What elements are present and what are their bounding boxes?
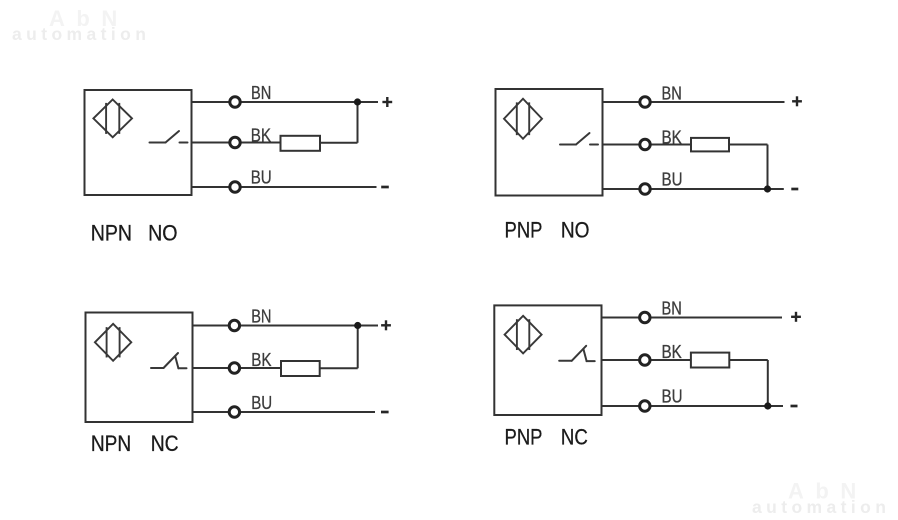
wire BN to + rail (PNP NC): [602, 317, 783, 319]
terminal circle BU (NPN NC): [229, 407, 239, 417]
wire BU to - rail (NPN NC): [193, 411, 376, 413]
sensor body box (PNP NC sensor): [494, 305, 601, 415]
svg-text:BN: BN: [251, 305, 271, 326]
terminal circle BK (PNP NC): [640, 355, 650, 365]
svg-text:BU: BU: [251, 166, 272, 187]
svg-text:automation: automation: [752, 497, 890, 517]
terminal circle BU (NPN NO): [230, 182, 240, 192]
minus terminal (NPN NC): [381, 411, 389, 414]
sensor body box (PNP NO sensor): [496, 89, 603, 196]
switch contact NO (NPN NO): [150, 131, 188, 143]
junction dot (BN rail NPN NC): [354, 322, 361, 329]
svg-text:NPN: NPN: [91, 220, 132, 245]
junction dot (BU rail PNP NO): [764, 185, 771, 192]
wire riser BK to BN junction (NPN NO): [357, 102, 359, 143]
wire BK to resistor (NPN NC): [193, 367, 282, 369]
svg-text:BU: BU: [662, 168, 683, 189]
wire resistor to riser (PNP NC): [729, 359, 768, 361]
switch contact NC (PNP NC): [559, 346, 595, 361]
svg-text:NC: NC: [151, 431, 179, 456]
terminal circle BK (NPN NC): [229, 363, 239, 373]
svg-text:automation: automation: [12, 24, 150, 44]
svg-text:NC: NC: [561, 425, 588, 450]
svg-text:PNP: PNP: [505, 218, 543, 243]
plus terminal (PNP NC): [791, 312, 801, 322]
junction dot (BU rail PNP NC): [764, 402, 771, 409]
terminal circle BN (PNP NC): [640, 312, 650, 322]
plus terminal (NPN NO): [382, 97, 392, 107]
svg-text:BU: BU: [662, 385, 683, 406]
wire BK to resistor (PNP NO): [603, 144, 692, 146]
minus terminal (NPN NO): [381, 186, 389, 189]
terminal circle BN (PNP NO): [640, 97, 650, 107]
wire resistor to riser (NPN NO): [320, 142, 358, 144]
resistor load (PNP NC): [691, 353, 729, 368]
wire BN to + rail (PNP NO): [603, 101, 785, 103]
sensor symbol diamond (NPN NC): [95, 324, 131, 361]
svg-text:NPN: NPN: [91, 431, 131, 456]
wire BN to + rail (NPN NO): [192, 101, 379, 103]
terminal circle BK (NPN NO): [230, 137, 240, 147]
svg-text:BN: BN: [662, 82, 682, 103]
svg-text:BN: BN: [662, 297, 682, 318]
svg-text:PNP: PNP: [505, 425, 543, 450]
wire riser BK to BN junction (NPN NC): [357, 326, 359, 369]
terminal circle BN (NPN NC): [229, 320, 239, 330]
plus terminal (NPN NC): [381, 320, 391, 330]
resistor load (PNP NO): [691, 138, 729, 152]
minus terminal (PNP NO): [791, 188, 798, 191]
sensor symbol diamond (PNP NC): [505, 316, 542, 354]
plus terminal (PNP NO): [792, 96, 802, 106]
svg-text:BN: BN: [251, 82, 271, 103]
junction dot (BN rail NPN NO): [354, 98, 361, 105]
wire riser BK to BU junction (PNP NO): [767, 145, 769, 190]
svg-text:NO: NO: [561, 218, 590, 243]
terminal circle BU (PNP NC): [640, 401, 650, 411]
sensor symbol diamond (PNP NO): [504, 99, 542, 139]
switch contact NC (NPN NC): [151, 353, 187, 368]
terminal circle BK (PNP NO): [640, 139, 650, 149]
wire BN to + rail (NPN NC): [193, 325, 379, 327]
wire BK to resistor (NPN NO): [192, 142, 281, 144]
wire BU to - rail (PNP NC): [602, 405, 784, 407]
svg-text:BK: BK: [662, 126, 683, 147]
sensor body box (NPN NC sensor): [86, 313, 193, 423]
wire BK to resistor (PNP NC): [602, 359, 691, 361]
sensor symbol diamond (NPN NO): [93, 100, 132, 138]
resistor load (NPN NO): [281, 136, 321, 151]
wire riser BK to BU junction (PNP NC): [767, 360, 769, 406]
svg-text:BK: BK: [251, 124, 272, 145]
wire BU to - rail (NPN NO): [192, 186, 377, 188]
wire resistor to riser (PNP NO): [729, 144, 768, 146]
resistor load (NPN NC): [281, 361, 320, 376]
svg-text:NO: NO: [148, 220, 177, 245]
minus terminal (PNP NC): [791, 405, 798, 408]
svg-text:BK: BK: [251, 349, 272, 370]
svg-text:BK: BK: [662, 341, 683, 362]
sensor body box (NPN NO sensor): [85, 90, 192, 195]
wire resistor to riser (NPN NC): [320, 367, 358, 369]
terminal circle BU (PNP NO): [640, 184, 650, 194]
terminal circle BN (NPN NO): [230, 97, 240, 107]
wire BU to - rail (PNP NO): [603, 188, 784, 190]
svg-text:BU: BU: [251, 392, 272, 413]
switch contact NO (PNP NO): [560, 133, 598, 145]
